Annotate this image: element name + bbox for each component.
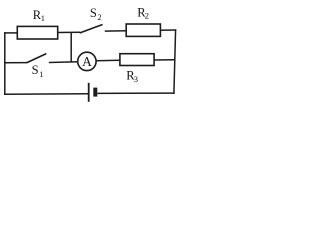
wire R3 to right vertical — [154, 59, 175, 61]
label R2 — [137, 6, 149, 21]
svg-text:S: S — [32, 63, 39, 77]
battery short plate — [93, 88, 97, 97]
ammeter A1 circle — [78, 52, 96, 70]
resistor R3 — [120, 54, 154, 66]
svg-text:2: 2 — [97, 12, 101, 22]
wire battery to bottom-right — [97, 92, 174, 94]
wire bottom-left to battery — [4, 93, 89, 96]
wire ammeter to R3 — [96, 59, 120, 62]
wire S1 contact to ammeter — [49, 61, 78, 64]
label S2 — [90, 6, 102, 22]
wire left vertical — [4, 32, 6, 95]
switch S1 — [26, 54, 46, 63]
svg-text:A: A — [82, 54, 92, 69]
resistor R2 — [126, 24, 160, 36]
wire R1 to node and S2 pivot — [58, 31, 80, 33]
svg-text:1: 1 — [41, 13, 45, 23]
node junction vertical wire — [70, 32, 72, 62]
battery long plate — [88, 83, 90, 102]
svg-text:S: S — [90, 6, 97, 20]
label R3 — [126, 69, 138, 85]
svg-text:3: 3 — [134, 74, 138, 84]
wire right vertical — [174, 29, 176, 94]
wire middle-left to S1 — [4, 62, 27, 64]
wire S2 contact to R2 — [105, 30, 127, 32]
label S1 — [32, 63, 44, 79]
wire top-left to R1 — [4, 32, 18, 34]
svg-text:1: 1 — [39, 69, 43, 79]
resistor R1 — [17, 26, 57, 39]
switch S2 — [80, 25, 103, 34]
label R1 — [33, 8, 45, 23]
svg-text:2: 2 — [145, 11, 149, 21]
wire R2 to right — [160, 29, 176, 31]
